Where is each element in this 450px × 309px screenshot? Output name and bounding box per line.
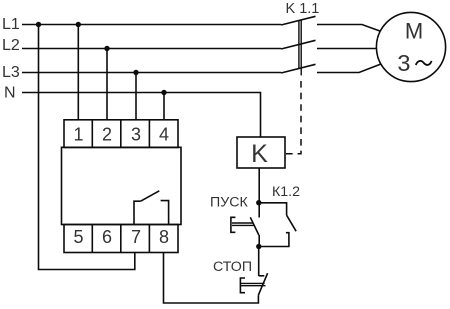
svg-text:4: 4 [159, 125, 169, 145]
svg-text:L1: L1 [2, 16, 20, 33]
svg-text:СТОП: СТОП [213, 259, 252, 275]
svg-text:7: 7 [131, 227, 141, 247]
svg-text:1: 1 [73, 125, 83, 145]
svg-text:5: 5 [73, 227, 83, 247]
svg-text:K 1.1: K 1.1 [286, 1, 320, 17]
svg-text:8: 8 [159, 227, 169, 247]
svg-text:К1.2: К1.2 [272, 184, 300, 200]
svg-text:3: 3 [131, 125, 141, 145]
svg-text:K: K [251, 140, 268, 168]
svg-text:N: N [4, 85, 16, 102]
svg-text:M: M [405, 19, 423, 44]
svg-text:ПУСК: ПУСК [210, 195, 248, 211]
svg-text:6: 6 [102, 227, 112, 247]
svg-text:2: 2 [102, 125, 112, 145]
svg-text:L3: L3 [2, 64, 20, 81]
svg-text:3: 3 [397, 50, 410, 76]
svg-text:L2: L2 [2, 37, 20, 54]
